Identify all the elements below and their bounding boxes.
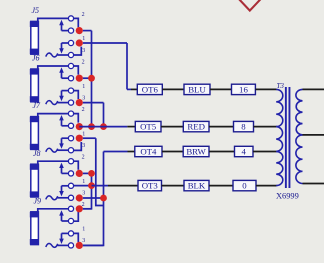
contact J7 pin circle 3 bbox=[68, 136, 73, 141]
contact J6 pin circle 1 bbox=[68, 63, 73, 68]
wire J8 C1 link bbox=[74, 161, 79, 170]
pin number 3 J7 bbox=[82, 143, 85, 149]
pin number 2 J5 bbox=[82, 12, 85, 18]
wire row1 black b bbox=[162, 88, 184, 90]
wire net V2 (J6 sleeve drop) bbox=[103, 103, 105, 127]
connector J6 body bbox=[30, 69, 39, 102]
wire J6 lower out bbox=[83, 102, 104, 104]
junction dot J6 sleeve bbox=[76, 99, 83, 106]
transformer T3 core bbox=[285, 87, 291, 188]
pin number 1 J5 bbox=[82, 36, 85, 42]
wire net V6 (J5 pin3 to row1) bbox=[126, 43, 128, 89]
junction dot J8 pin1 bbox=[76, 170, 83, 177]
contact J7 pin circle 1 bbox=[68, 111, 73, 116]
tip spring J6 bbox=[46, 101, 58, 105]
wire row3 black c bbox=[209, 151, 235, 153]
wire row1 black d bbox=[255, 88, 276, 90]
contact J7 pin circle 4 bbox=[68, 148, 73, 153]
pin number 3 J6 bbox=[82, 95, 85, 101]
svg-text:BLK: BLK bbox=[188, 181, 206, 191]
wire J7 C1 link bbox=[74, 114, 79, 123]
switch arrow J9 lower bbox=[59, 233, 64, 244]
junction dot J7 pin1 bbox=[76, 123, 83, 130]
contact J8 pin circle 2 bbox=[68, 171, 73, 176]
junction dot V1-J6 bbox=[88, 75, 95, 82]
wire J6 arrow-C2 bbox=[62, 77, 69, 79]
transformer T3 primary coil 8-4 bbox=[276, 127, 282, 152]
transformer T3 primary coil 4-0 bbox=[276, 152, 283, 186]
junction dot J9 tip bbox=[76, 205, 83, 212]
svg-text:2: 2 bbox=[82, 107, 85, 113]
svg-text:X6999: X6999 bbox=[276, 192, 299, 201]
tip spring J8 bbox=[46, 196, 58, 200]
wire J5 upper out bbox=[83, 30, 92, 32]
svg-text:OT6: OT6 bbox=[142, 84, 159, 94]
net label OT5 bbox=[135, 121, 161, 131]
wire row1 black a bbox=[131, 88, 137, 90]
wire J7 C4 link bbox=[74, 142, 82, 150]
pin box 0 bbox=[233, 180, 256, 190]
switch arrow J7 upper bbox=[59, 115, 64, 126]
contact J5 pin circle 2 bbox=[68, 28, 73, 33]
wire J6 C3 link bbox=[74, 91, 79, 99]
svg-text:1: 1 bbox=[82, 227, 85, 233]
wire J5 lower out bbox=[83, 42, 127, 44]
svg-text:J5: J5 bbox=[32, 6, 40, 15]
wire J8 tip bbox=[38, 161, 69, 165]
transformer T3 label bbox=[277, 82, 285, 90]
svg-text:J9: J9 bbox=[34, 196, 42, 205]
svg-text:RED: RED bbox=[187, 122, 205, 132]
pin number 2 J7 bbox=[82, 107, 85, 113]
contact J5 pin circle 3 bbox=[68, 40, 73, 45]
junction dot J8 sleeve bbox=[76, 194, 83, 201]
switch arrow J5 lower bbox=[59, 43, 64, 54]
junction dot J5 pin3 bbox=[76, 39, 83, 46]
wire net V5 (OT4 bus) bbox=[83, 152, 104, 246]
net label OT3 bbox=[138, 180, 162, 190]
pin number 1 J6 bbox=[82, 84, 85, 90]
svg-text:1: 1 bbox=[82, 131, 85, 137]
tip spring J7 bbox=[46, 148, 58, 152]
wire row3 black d bbox=[253, 151, 277, 153]
contact J6 pin circle 3 bbox=[68, 88, 73, 93]
wire net V4 (J8 pin1 bus) bbox=[83, 173, 92, 208]
wire J8 arrow-C2 bbox=[62, 172, 69, 174]
wire J5 C1 link bbox=[74, 18, 79, 27]
wire J7 lower out bbox=[83, 137, 96, 139]
contact J7 pin circle 2 bbox=[68, 123, 73, 128]
tip spring J9 bbox=[46, 243, 58, 247]
wire J9 arrow-C3 bbox=[62, 232, 69, 234]
wire J5 C4 link bbox=[74, 47, 82, 55]
net label BLU bbox=[184, 84, 210, 94]
wire row2 black b bbox=[161, 126, 183, 128]
wire J7 tip bbox=[38, 114, 69, 118]
wire row4 black c bbox=[209, 185, 233, 187]
error marker diamond bbox=[237, 0, 263, 11]
pin number 3 J8 bbox=[82, 191, 85, 197]
pin box 8 bbox=[234, 121, 254, 131]
connector J8 body bbox=[30, 164, 39, 197]
junction dot J7 pin3 bbox=[76, 135, 83, 142]
net label RED bbox=[183, 121, 209, 131]
svg-text:3: 3 bbox=[82, 238, 85, 244]
pin box 16 bbox=[232, 84, 256, 94]
wire net V3 (J7 pin3 drop) bbox=[96, 138, 104, 205]
svg-text:1: 1 bbox=[82, 84, 85, 90]
junction dot V1-row2 bbox=[88, 123, 95, 130]
pin number 3 J5 bbox=[82, 48, 85, 54]
wire J7 sleeve bbox=[58, 149, 69, 151]
wire row1 black c bbox=[210, 88, 232, 90]
junction dot V2-row2 bbox=[100, 123, 107, 130]
wire J5 tip bbox=[38, 18, 69, 22]
connector J8 label bbox=[33, 149, 41, 158]
wire J8 arrow-C3 bbox=[62, 185, 69, 187]
wire secondary center tap bbox=[303, 134, 324, 136]
wire row3 blue bbox=[104, 151, 128, 153]
wire secondary top tap bbox=[303, 88, 324, 90]
wire J9 C3 link bbox=[74, 233, 79, 242]
switch arrow J6 upper bbox=[59, 67, 64, 78]
connector J7 label bbox=[33, 101, 42, 110]
contact J9 pin circle 4 bbox=[68, 243, 73, 248]
wire J8 sleeve bbox=[58, 197, 69, 199]
contact J8 pin circle 3 bbox=[68, 183, 73, 188]
wire J6 upper out bbox=[83, 77, 92, 79]
wire J7 arrow-C2 bbox=[62, 125, 69, 127]
wire J9 sleeve bbox=[58, 244, 69, 246]
wire J8 C3 out bbox=[74, 185, 92, 187]
svg-text:BLU: BLU bbox=[188, 84, 206, 94]
wire row4 blue bbox=[92, 185, 109, 187]
connector J6 label bbox=[32, 54, 40, 63]
transformer T3 primary coil 16-8 bbox=[276, 89, 283, 126]
contact J5 pin circle 1 bbox=[68, 16, 73, 21]
svg-text:0: 0 bbox=[242, 181, 247, 191]
wire row2 black d bbox=[254, 126, 277, 128]
wire J8 upper out bbox=[83, 172, 92, 174]
tip spring J5 bbox=[46, 53, 58, 57]
svg-text:3: 3 bbox=[82, 143, 85, 149]
wire row2 blue bbox=[79, 126, 127, 128]
svg-text:2: 2 bbox=[82, 12, 85, 18]
wire net V1 (J5/J6 pin1 bus) bbox=[91, 31, 93, 127]
wire J9 tip bbox=[38, 209, 69, 213]
svg-text:J6: J6 bbox=[32, 54, 40, 63]
svg-text:OT4: OT4 bbox=[140, 146, 157, 156]
connector J7 body bbox=[30, 117, 39, 150]
switch arrow J8 lower bbox=[59, 186, 64, 197]
contact J9 pin circle 2 bbox=[68, 218, 73, 223]
pin box 4 bbox=[235, 146, 254, 156]
svg-text:3: 3 bbox=[82, 48, 85, 54]
wire secondary bottom tap bbox=[303, 183, 324, 185]
net label OT4 bbox=[135, 146, 162, 156]
pin number 1 J7 bbox=[82, 131, 85, 137]
pin number 1 J8 bbox=[82, 179, 85, 185]
svg-text:2: 2 bbox=[82, 59, 85, 65]
wire J9 C1 link bbox=[74, 210, 79, 221]
wire J5 arrow-C2 bbox=[62, 30, 69, 32]
connector J5 body bbox=[30, 21, 39, 54]
svg-text:4: 4 bbox=[242, 146, 247, 156]
svg-text:OT3: OT3 bbox=[142, 181, 159, 191]
contact J8 pin circle 4 bbox=[68, 195, 73, 200]
transformer T3 secondary coil lower bbox=[296, 135, 303, 184]
wire J7 arrow-C3 bbox=[62, 137, 69, 139]
svg-text:3: 3 bbox=[82, 95, 85, 101]
svg-text:OT5: OT5 bbox=[140, 122, 157, 132]
pin number 2 J6 bbox=[82, 59, 85, 65]
wire row1 blue stub bbox=[127, 88, 131, 90]
wire row4 black d bbox=[256, 185, 277, 187]
wire J9 arrow-C2 bbox=[62, 220, 69, 222]
wire row3 black b bbox=[162, 151, 183, 153]
net label OT6 bbox=[137, 84, 162, 94]
connector J5 label bbox=[32, 6, 40, 15]
junction dot J9 sleeve bbox=[76, 242, 83, 249]
net label BRW bbox=[183, 146, 209, 156]
switch arrow J9 upper bbox=[59, 210, 64, 221]
svg-text:J7: J7 bbox=[33, 101, 42, 110]
wire J9 lower out bbox=[83, 244, 104, 246]
switch arrow J5 upper bbox=[59, 20, 64, 31]
svg-text:1: 1 bbox=[82, 179, 85, 185]
wire row2 black c bbox=[209, 126, 234, 128]
svg-text:3: 3 bbox=[82, 191, 85, 197]
contact J5 pin circle 4 bbox=[68, 52, 73, 57]
svg-text:1: 1 bbox=[82, 36, 85, 42]
pin number 2 J8 bbox=[82, 155, 85, 161]
wire J6 sleeve bbox=[58, 102, 69, 104]
wire J6 tip bbox=[38, 66, 69, 70]
wire J8 lower out bbox=[83, 197, 104, 199]
net label BLK bbox=[184, 180, 209, 190]
transformer T3 secondary coil upper bbox=[296, 89, 303, 134]
wire row2 black a bbox=[127, 126, 135, 128]
connector J9 label bbox=[34, 196, 42, 205]
wire J9 upper out bbox=[83, 208, 92, 210]
contact J8 pin circle 1 bbox=[68, 159, 73, 164]
switch arrow J7 lower bbox=[59, 138, 64, 149]
wire J5 arrow-C3 bbox=[62, 42, 69, 44]
switch arrow J6 lower bbox=[59, 91, 64, 102]
svg-text:BRW: BRW bbox=[186, 146, 206, 156]
wire row4 black a bbox=[108, 185, 138, 187]
svg-text:8: 8 bbox=[241, 122, 246, 132]
contact J9 pin circle 3 bbox=[68, 231, 73, 236]
transformer T3 part number X6999 bbox=[276, 192, 299, 201]
pin number 3 J9 bbox=[82, 238, 85, 244]
switch arrow J8 upper bbox=[59, 163, 64, 174]
wire row3 black a bbox=[128, 151, 135, 153]
svg-text:2: 2 bbox=[82, 155, 85, 161]
svg-text:J8: J8 bbox=[33, 149, 41, 158]
connector J9 body bbox=[30, 212, 39, 245]
svg-text:16: 16 bbox=[239, 84, 248, 94]
junction dot V4-J8 pin1 bbox=[88, 170, 95, 177]
contact J6 pin circle 2 bbox=[68, 76, 73, 81]
junction dot J6 pin1 bbox=[76, 75, 83, 82]
wire row4 black b bbox=[162, 185, 185, 187]
wire J6 arrow-C3 bbox=[62, 90, 69, 92]
wire J6 C1 link bbox=[74, 66, 79, 75]
contact J6 pin circle 4 bbox=[68, 100, 73, 105]
wire J5 sleeve bbox=[58, 54, 69, 56]
contact J9 pin circle 1 bbox=[68, 206, 73, 211]
junction dot J5 pin1 bbox=[76, 27, 83, 34]
junction dot V5-J8 sleeve bbox=[100, 195, 107, 202]
pin number 2 J9 bbox=[82, 202, 85, 208]
junction dot V4-row4 bbox=[88, 182, 95, 189]
pin number 1 J9 bbox=[82, 227, 85, 233]
